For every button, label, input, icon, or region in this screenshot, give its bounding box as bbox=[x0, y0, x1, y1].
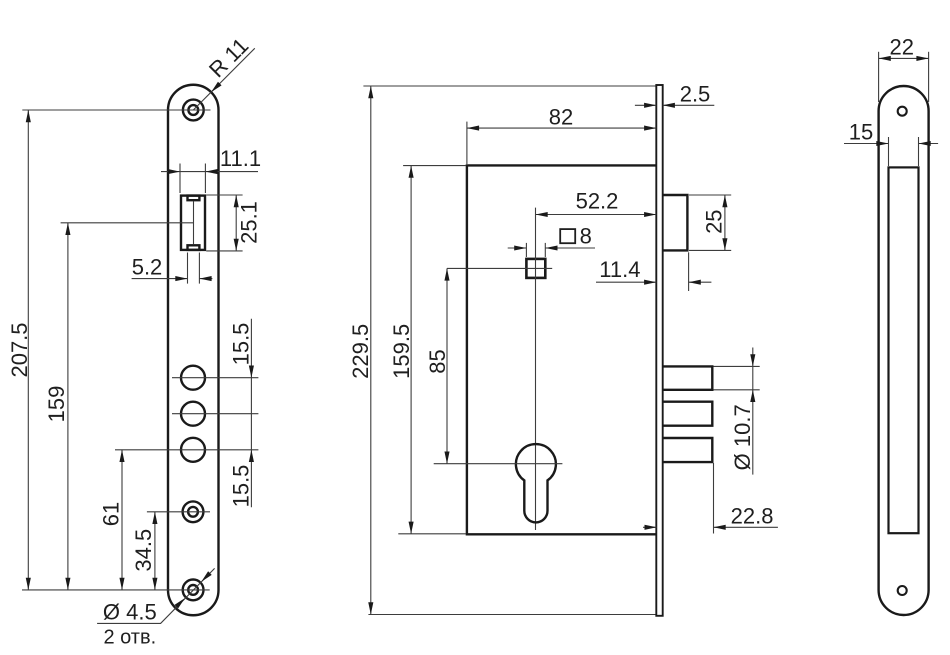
faceplate top extension line bbox=[363, 85, 656, 87]
top hole centerline bbox=[22, 109, 210, 111]
dimension 2.5 bbox=[635, 82, 714, 108]
latch bolt bbox=[663, 195, 687, 250]
dimension 82 bbox=[467, 104, 656, 164]
svg-text:2 отв.: 2 отв. bbox=[103, 627, 156, 649]
dimension 159 bbox=[44, 223, 70, 590]
deadbolt pin 2 bbox=[663, 402, 712, 426]
cylinder keyhole bbox=[516, 444, 556, 522]
screw hole lower bbox=[183, 580, 204, 601]
dimension square 8 bbox=[508, 224, 595, 257]
screw hole upper bbox=[183, 501, 204, 522]
dimension 207.5 bbox=[7, 110, 32, 590]
keyhole horizontal centerline bbox=[434, 463, 563, 465]
deadbolt hole 2 bbox=[181, 402, 205, 426]
dimension 85 bbox=[425, 268, 450, 463]
svg-text:34.5: 34.5 bbox=[131, 529, 156, 572]
svg-text:229.5: 229.5 bbox=[348, 324, 373, 379]
svg-text:25: 25 bbox=[701, 209, 726, 233]
dimension 229.5 bbox=[348, 86, 374, 615]
svg-text:159.5: 159.5 bbox=[389, 324, 414, 379]
dimension diameter 10.7 bbox=[713, 348, 759, 475]
dimension 15.5 upper bbox=[228, 319, 254, 508]
spindle horizontal centerline bbox=[447, 267, 552, 269]
latch cutout bbox=[181, 196, 205, 250]
faceplate bottom extension line bbox=[368, 614, 656, 616]
lock body outline bbox=[467, 165, 656, 534]
svg-text:207.5: 207.5 bbox=[7, 322, 32, 377]
strike plate top hole bbox=[898, 107, 907, 116]
bottom reference centerline bbox=[22, 589, 210, 591]
dimension 25 bbox=[689, 195, 731, 250]
dimension 34.5 bbox=[131, 512, 157, 590]
faceplate front outline bbox=[168, 85, 219, 616]
svg-text:15.5: 15.5 bbox=[228, 323, 253, 366]
svg-text:159: 159 bbox=[44, 386, 69, 423]
deadbolt pin 3 bbox=[663, 438, 712, 462]
spindle square hole bbox=[526, 259, 545, 278]
svg-text:15: 15 bbox=[849, 120, 873, 145]
dimension 15 bbox=[844, 120, 938, 167]
faceplate edge bar bbox=[656, 85, 662, 616]
svg-text:22: 22 bbox=[889, 34, 913, 59]
latch centerlines bbox=[61, 201, 194, 245]
deadbolt hole 3 bbox=[181, 438, 205, 462]
svg-text:22.8: 22.8 bbox=[731, 503, 774, 528]
label diameter 4.5, 2 holes bbox=[97, 568, 215, 648]
dimension 22 bbox=[879, 34, 929, 102]
svg-text:5.2: 5.2 bbox=[132, 254, 163, 279]
svg-text:82: 82 bbox=[549, 104, 573, 129]
svg-text:25.1: 25.1 bbox=[237, 201, 262, 244]
strike plate inner recess bbox=[889, 167, 919, 533]
strike plate bottom hole bbox=[898, 586, 907, 595]
svg-text:Ø 4.5: Ø 4.5 bbox=[103, 599, 157, 624]
dimension 22.8 bbox=[643, 463, 778, 534]
top screw hole bbox=[183, 100, 204, 121]
svg-text:85: 85 bbox=[425, 349, 450, 373]
strike plate back outline bbox=[879, 86, 929, 615]
svg-text:15.5: 15.5 bbox=[228, 465, 253, 508]
svg-text:52.2: 52.2 bbox=[576, 189, 619, 214]
dimension 5.2 bbox=[132, 253, 213, 284]
dimension 61 bbox=[99, 450, 125, 590]
svg-text:61: 61 bbox=[99, 502, 124, 526]
deadbolt hole 1 bbox=[181, 366, 205, 390]
dimension 11.4 bbox=[596, 252, 711, 291]
screw hole upper centerline bbox=[147, 511, 210, 513]
dimension 25.1 bbox=[206, 195, 261, 251]
dimension R 11 bbox=[193, 33, 255, 110]
dimension 159.5 bbox=[389, 166, 466, 534]
dimension 11.1 bbox=[161, 146, 261, 193]
svg-text:Ø 10.7: Ø 10.7 bbox=[730, 404, 755, 470]
spindle vertical centerline bbox=[535, 208, 537, 530]
svg-text:2.5: 2.5 bbox=[680, 82, 711, 107]
svg-text:11.1: 11.1 bbox=[220, 146, 261, 171]
dimension 15.5 lower bbox=[228, 465, 253, 508]
deadbolt pin 1 bbox=[663, 366, 712, 389]
svg-text:11.4: 11.4 bbox=[599, 257, 640, 282]
deadbolt hole centerlines bbox=[115, 378, 258, 450]
svg-text:8: 8 bbox=[580, 224, 592, 249]
dimension 52.2 bbox=[536, 189, 657, 218]
